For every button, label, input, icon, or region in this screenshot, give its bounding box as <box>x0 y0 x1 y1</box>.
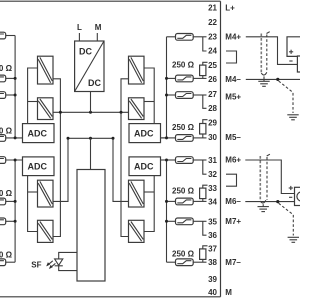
wire row 31 <box>160 159 176 161</box>
left switch S4 (clipped) <box>0 135 6 142</box>
tie terminals 23-24 <box>203 37 207 51</box>
link I1 right to I4 right <box>53 79 60 237</box>
switch S35 <box>176 218 194 225</box>
tie terminals 35-36 <box>203 221 207 235</box>
ADC U2 left <box>23 157 55 176</box>
switch S26 <box>176 75 194 82</box>
minus label P2 <box>289 196 292 198</box>
wire M6+ to transmitter <box>245 160 294 194</box>
cable shield pair ch4 <box>260 34 262 74</box>
junction bus B right <box>112 137 115 140</box>
svg-text:26: 26 <box>208 75 217 84</box>
svg-text:M7+: M7+ <box>225 217 241 226</box>
wire I2 left tap <box>28 101 38 103</box>
cable shield pair ch6 <box>259 156 261 201</box>
left switch S7 (clipped) <box>0 218 6 225</box>
left wire row8 <box>6 261 16 263</box>
junction bus A left <box>59 111 62 114</box>
ground G4 <box>288 237 299 242</box>
svg-text:M5–: M5– <box>225 133 241 142</box>
svg-text:28: 28 <box>208 104 217 113</box>
wire ADC4 bottom to I4R right <box>144 176 154 232</box>
shield drop ch4 to ground <box>279 81 293 113</box>
wire ADC2 bottom to I4 left <box>28 176 38 232</box>
supply bus A horizontal <box>53 111 129 113</box>
left wire row5 to ADC2 <box>6 159 23 161</box>
left switch S5 (clipped) <box>0 157 6 164</box>
resistor 250R ch6 <box>200 188 206 199</box>
isolator I1 <box>38 56 54 84</box>
svg-text:36: 36 <box>208 231 217 240</box>
hook terminal 37 <box>203 246 208 249</box>
LED SF diode <box>55 259 63 266</box>
wire I2R right tap <box>144 101 154 103</box>
wire row 34 <box>167 200 176 202</box>
minus label P1 <box>289 60 292 62</box>
junction M4- shield tap <box>276 78 279 81</box>
junction bus B left <box>67 137 70 140</box>
left MUX bus group2 <box>14 160 16 262</box>
left wire row3 <box>6 94 16 96</box>
resistor 250R ch5 <box>200 124 206 135</box>
transmitter P2 box <box>295 187 309 205</box>
svg-text:M6–: M6– <box>225 197 241 206</box>
switch S23 <box>176 34 194 41</box>
resistor 250R ch7 <box>200 249 206 260</box>
isolator I4R <box>129 220 145 242</box>
junction bus B center <box>89 137 92 140</box>
wire row 38 <box>167 261 176 263</box>
switch S31 <box>176 157 194 164</box>
left wire row6 <box>6 200 16 202</box>
svg-text:23: 23 <box>208 32 217 41</box>
switch S27 <box>176 92 194 99</box>
bracket terminals 24-25 <box>226 51 237 63</box>
junction right bus row35 <box>165 220 168 223</box>
junction left bus row4 <box>14 136 17 139</box>
transmitter P2 circle <box>297 192 306 201</box>
wire DC/DC to bus A <box>90 92 92 113</box>
link I1R left to I4R left <box>121 79 129 237</box>
wire M6- return <box>245 201 294 203</box>
ground G1 <box>258 76 269 86</box>
svg-text:DC: DC <box>79 47 92 57</box>
svg-text:M6+: M6+ <box>225 156 241 165</box>
isolator I3 <box>38 180 54 207</box>
left switch S8 (clipped) <box>0 259 6 266</box>
transmitter P1 box B <box>297 56 300 72</box>
terminal M stub <box>95 23 102 41</box>
svg-text:M: M <box>225 288 232 297</box>
svg-text:27: 27 <box>208 90 217 99</box>
svg-text:250 Ω: 250 Ω <box>0 127 13 136</box>
wire bus B to interface <box>90 138 92 169</box>
tie terminals 31-32 <box>203 160 207 174</box>
svg-text:M: M <box>95 23 102 32</box>
bracket terminals 32-33 <box>226 174 237 186</box>
junction right bus row31 <box>165 159 168 162</box>
svg-text:34: 34 <box>208 198 217 207</box>
plus label P1 <box>289 50 293 54</box>
wire row 26 <box>167 77 176 79</box>
isolator I1R <box>129 56 145 84</box>
svg-text:ADC: ADC <box>134 162 154 172</box>
backplane bus interface block <box>77 170 105 282</box>
junction right bus row27 <box>165 94 168 97</box>
svg-text:250 Ω: 250 Ω <box>172 250 195 259</box>
DC/DC converter U5 <box>75 41 104 92</box>
svg-text:35: 35 <box>208 217 217 226</box>
junction bus A center <box>89 111 92 114</box>
ADC U4 right <box>129 157 161 176</box>
junction bus A right <box>120 111 123 114</box>
junction left bus row3 <box>14 94 17 97</box>
right MUX bus group1 <box>160 37 167 138</box>
svg-text:250 Ω: 250 Ω <box>172 61 195 70</box>
svg-text:33: 33 <box>208 184 217 193</box>
junction right bus row34 <box>165 200 168 203</box>
junction left bus row6 <box>14 200 17 203</box>
module frame bottom border <box>0 296 221 298</box>
tie terminals 27-28 <box>203 95 207 108</box>
svg-text:25: 25 <box>208 61 217 70</box>
wire row 27 <box>167 94 176 96</box>
left MUX bus group1 <box>14 36 16 138</box>
module frame top border <box>0 0 221 2</box>
isolator I2R <box>129 98 145 120</box>
svg-text:38: 38 <box>208 258 217 267</box>
svg-text:39: 39 <box>208 275 217 284</box>
wire row 23 <box>167 36 176 38</box>
svg-text:250 Ω: 250 Ω <box>0 251 13 260</box>
left switch S6 (clipped) <box>0 198 6 205</box>
terminal L stub <box>77 23 82 41</box>
svg-text:32: 32 <box>208 170 217 179</box>
wire I1 left to ADC1 top <box>28 68 38 124</box>
bus B horizontal <box>53 138 129 201</box>
shield drop ch6 to ground <box>279 203 294 235</box>
shield hook ch4 <box>261 72 267 75</box>
shield hook ch6 <box>260 200 266 203</box>
svg-text:31: 31 <box>208 156 217 165</box>
wire M4+ to transmitter <box>246 37 298 65</box>
left wire row7 <box>6 220 16 222</box>
terminal numbers 21-40 <box>208 4 217 297</box>
wire row 35 <box>167 220 176 222</box>
svg-text:250 Ω: 250 Ω <box>0 64 13 73</box>
svg-text:29: 29 <box>208 118 217 127</box>
svg-text:SF: SF <box>31 261 41 270</box>
switch S30 <box>176 135 194 142</box>
left switch S2 (clipped) <box>0 75 6 82</box>
switch S34 <box>176 198 194 205</box>
ground G2 <box>287 115 298 120</box>
svg-text:30: 30 <box>208 133 217 142</box>
switch S38 <box>176 259 194 266</box>
left wire row4 to ADC1 <box>6 137 23 139</box>
ADC U1 left <box>23 124 55 143</box>
hook terminal 25 <box>203 62 208 65</box>
transmitter P1 box A <box>287 37 300 57</box>
svg-text:DC: DC <box>88 78 101 88</box>
junction right bus row26 <box>165 77 168 80</box>
right side terminal labels <box>225 4 241 297</box>
svg-text:M4+: M4+ <box>225 32 241 41</box>
svg-text:L+: L+ <box>225 4 235 13</box>
isolator I2 <box>38 98 54 120</box>
svg-text:M7–: M7– <box>225 258 241 267</box>
svg-text:ADC: ADC <box>28 162 48 172</box>
left wire row2 <box>6 77 16 79</box>
svg-text:L: L <box>77 23 82 32</box>
svg-text:ADC: ADC <box>28 129 48 139</box>
left wire row1 <box>6 35 16 37</box>
wire I1R right to ADC3 top <box>144 68 154 124</box>
svg-text:M4–: M4– <box>225 75 241 84</box>
svg-text:40: 40 <box>208 288 217 297</box>
junction left bus row7 <box>14 220 17 223</box>
left switch S3 (clipped) <box>0 92 6 99</box>
ADC U3 right <box>129 124 161 143</box>
wire I3R right tap <box>144 191 154 193</box>
svg-text:37: 37 <box>208 245 217 254</box>
svg-text:250 Ω: 250 Ω <box>172 186 195 195</box>
svg-text:ADC: ADC <box>134 129 154 139</box>
isolator I3R <box>129 180 145 207</box>
hook terminal 33 <box>203 185 208 188</box>
svg-text:22: 22 <box>208 18 217 27</box>
LED arrows <box>46 261 55 269</box>
right MUX bus group2 <box>166 160 168 262</box>
wire M4- return <box>246 78 300 80</box>
ground G3 <box>258 204 269 211</box>
svg-text:250 Ω: 250 Ω <box>0 189 13 198</box>
svg-text:250 Ω: 250 Ω <box>172 123 195 132</box>
svg-text:M5+: M5+ <box>225 92 241 101</box>
resistor 250R ch4 <box>200 65 206 76</box>
wire I3 left tap <box>28 191 38 193</box>
wire row 30 <box>160 137 176 139</box>
left switch S1 (clipped) <box>0 32 6 39</box>
isolator I4 <box>38 220 54 242</box>
junction left bus row5 <box>14 159 17 162</box>
junction right bus row30 <box>165 136 168 139</box>
SF LED loop <box>59 252 77 258</box>
plus label P2 <box>289 186 293 190</box>
module frame right boundary <box>220 1 222 297</box>
junction M6- shield tap <box>276 200 279 203</box>
junction left bus row2 <box>14 77 17 80</box>
svg-text:24: 24 <box>208 47 217 56</box>
svg-text:21: 21 <box>208 4 217 13</box>
hook terminal 29 <box>203 120 208 124</box>
